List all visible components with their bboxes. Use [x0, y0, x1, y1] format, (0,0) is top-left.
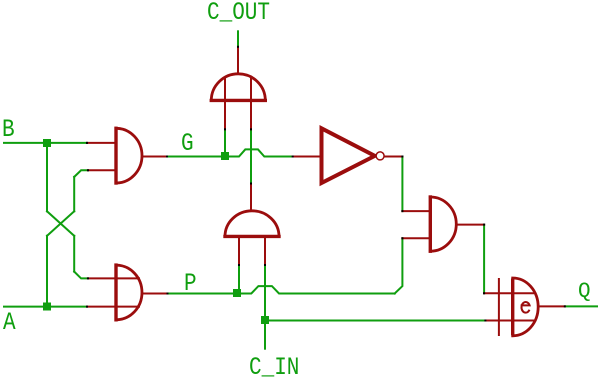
wire X cross diagonal 1: [47, 211, 74, 236]
AND gate U4 body (rotated, output up): [225, 211, 279, 237]
pin end dot U2.2: [86, 306, 88, 308]
wire chamfer to U1 input 2: [74, 170, 88, 177]
pin end dot U7.1: [483, 292, 485, 294]
wire X lower-right vertical: [73, 236, 75, 272]
wire A input: [4, 306, 87, 308]
wire chamfer to U2 input 1: [74, 272, 88, 279]
wire X lower-left vertical to A: [46, 236, 48, 307]
pin end dot U5.2: [401, 237, 403, 239]
pin stub U4 input 1: [238, 238, 240, 265]
pin end dot U6.in: [292, 156, 294, 158]
pin stub U7 input 1 (through body): [484, 292, 533, 294]
wire Q output: [565, 305, 598, 307]
wire U6 output down to U5 input 1: [401, 157, 403, 212]
pin stub U2 input 2 (through body): [87, 306, 139, 308]
pin stub U5 input 2: [402, 237, 429, 239]
pin end dot U7.2: [484, 320, 486, 322]
junction node B: [43, 139, 51, 147]
svg-text:P: P: [184, 270, 197, 298]
pin end dot U3.1: [224, 128, 226, 130]
wire U3 left leg to G junction: [224, 129, 226, 156]
pin end dot U2.out: [167, 293, 169, 295]
AND gate U2 body: [116, 265, 142, 320]
wire B input: [4, 142, 87, 144]
pin stub U1 output: [142, 156, 167, 158]
pin end dot U4.2: [264, 264, 266, 266]
pin end dot U1.out: [166, 156, 168, 158]
XOR gate U7 extra input bar: [498, 279, 500, 335]
wire net G with hop over vertical: [167, 149, 293, 156]
AND gate U3 body (rotated, output up): [211, 74, 265, 101]
svg-text:C_OUT: C_OUT: [207, 0, 270, 27]
pin end dot U7.out: [564, 305, 566, 307]
wire C_IN net horizontal: [265, 320, 485, 322]
pin stub U1 input 1: [87, 142, 115, 144]
pin end dot U4.out: [250, 183, 252, 185]
junction node P: [233, 289, 241, 297]
pin stub U6 output: [385, 156, 402, 158]
junction node G: [221, 152, 229, 160]
wire P chamfer up to U5 input 2: [395, 238, 403, 293]
AND gate U1 body: [116, 128, 142, 183]
pin stub U5 input 1: [402, 210, 429, 212]
pin stub U3 output to C_OUT: [237, 47, 239, 74]
pin end dot U3.out: [237, 46, 239, 48]
pin end dot U3.2: [250, 128, 252, 130]
wire U4 left leg to P junction: [238, 265, 240, 294]
wire U3 right leg to U4 output: [250, 129, 252, 183]
pin end dot U2.1: [87, 277, 89, 279]
AND gate U5 body: [430, 197, 456, 251]
pin stub U7 output: [539, 305, 565, 307]
inverter U6 bubble: [376, 152, 384, 160]
pin end dot U5.out: [483, 224, 485, 226]
svg-text:Q: Q: [578, 281, 591, 304]
svg-text:G: G: [181, 130, 194, 158]
pin end dot U1.2: [87, 169, 89, 171]
XOR gate U7 letter e: [521, 302, 529, 313]
pin stub U4 output: [250, 184, 252, 211]
pin stub U2 output: [143, 293, 168, 295]
pin stub U3 input 1 (through body): [224, 78, 226, 129]
pin end dot U1.1: [86, 142, 88, 144]
pin stub U4 input 2: [264, 238, 266, 265]
wire C_OUT net: [237, 31, 239, 47]
pin stub U7 input 2 (through body): [485, 320, 533, 322]
svg-text:C_IN: C_IN: [249, 353, 299, 380]
junction node A: [43, 303, 51, 311]
junction node C_IN: [261, 316, 269, 324]
wire U5 output down to U7 input 1: [483, 225, 485, 294]
wire U4 right leg to C_IN junction: [264, 265, 266, 349]
inverter U6 triangle: [322, 128, 375, 183]
pin end dot U5.1: [401, 210, 403, 212]
pin stub U2 input 1 (through body): [88, 277, 139, 279]
wire B junction down: [46, 143, 48, 211]
svg-text:A: A: [3, 309, 16, 337]
pin stub U5 output: [457, 224, 484, 226]
wire net P with hop over vertical: [168, 286, 395, 293]
XOR gate U7 body: [513, 278, 538, 336]
wire X cross diagonal 2: [47, 211, 74, 236]
wire X upper-right vertical: [73, 177, 75, 211]
pin end dot U6.out: [401, 156, 403, 158]
pin stub U6 input: [293, 156, 320, 158]
svg-text:B: B: [2, 116, 15, 144]
pin stub U1 input 2: [88, 169, 115, 171]
pin stub U3 input 2 (through body): [250, 78, 252, 129]
pin end dot U4.1: [238, 264, 240, 266]
